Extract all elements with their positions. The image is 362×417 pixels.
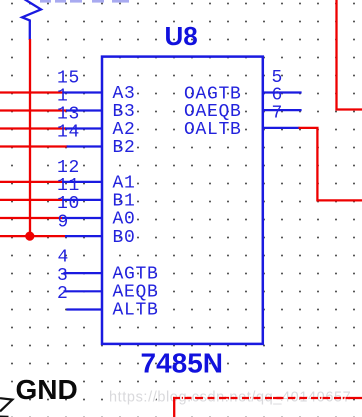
svg-text:12: 12 — [57, 158, 80, 178]
svg-text:B1: B1 — [113, 192, 136, 212]
pin stub A0 — [62, 217, 103, 219]
pin stub B0 — [65, 235, 103, 237]
svg-text:GND: GND — [16, 374, 78, 405]
wire: red bottom horizontal (under watermark) — [173, 397, 362, 399]
svg-text:B0: B0 — [113, 228, 136, 248]
svg-text:2: 2 — [57, 284, 69, 304]
wire: horizontal red to pin 13 (A2) — [0, 127, 66, 129]
pin stub ALTB — [67, 308, 104, 310]
svg-text:AGTB: AGTB — [113, 264, 159, 284]
svg-text:1: 1 — [57, 86, 69, 106]
wire: horizontal red to pin 15 (A3) — [0, 91, 64, 93]
wire: horizontal red to pin 1 (B3) — [0, 109, 67, 111]
svg-text:OALTB: OALTB — [184, 120, 242, 140]
clipped label text remnants (top edge) — [40, 0, 129, 3]
junction dot on B0 wire — [25, 232, 34, 241]
wire: red bottom horizontal dashes over watermark — [173, 397, 350, 399]
svg-text:14: 14 — [57, 123, 80, 143]
svg-text:A2: A2 — [113, 120, 136, 140]
svg-text:7485N: 7485N — [141, 348, 224, 379]
wire: horizontal red to pin 10 (A0) — [0, 217, 63, 219]
wire: red from OALTB stub right-down-right to edge — [299, 128, 362, 200]
pin stub A1 — [62, 181, 103, 183]
pin stub B3 — [66, 109, 103, 111]
svg-text:9: 9 — [58, 212, 70, 232]
pin stub B1 — [62, 199, 103, 201]
resistor R (top-left, partially clipped) — [22, 0, 41, 40]
ground flag chevron — [0, 398, 12, 411]
svg-text:B2: B2 — [113, 138, 136, 158]
wire: horizontal red to pin 11 (B1) — [0, 199, 63, 201]
svg-text:B3: B3 — [113, 102, 136, 122]
svg-text:A1: A1 — [113, 174, 136, 194]
wire: vertical red from resistor to B0 row — [29, 39, 31, 236]
wire: horizontal red to pin 14 (B2) — [0, 145, 68, 147]
svg-text:10: 10 — [57, 194, 80, 214]
svg-text:A0: A0 — [113, 210, 136, 230]
wire: horizontal red to pin 12 (A1) — [0, 181, 63, 183]
wire: red from top edge down then right (net into right edge) — [337, 0, 362, 110]
svg-text:11: 11 — [57, 176, 80, 196]
svg-text:AEQB: AEQB — [113, 283, 159, 303]
svg-text:6: 6 — [272, 86, 284, 106]
pin stub B2 — [67, 145, 103, 147]
wire: red bottom vertical drop — [173, 397, 175, 417]
svg-text:A3: A3 — [113, 84, 136, 104]
svg-text:13: 13 — [57, 105, 80, 125]
pin stub AEQB — [64, 290, 104, 292]
pin stub A2 — [65, 127, 103, 129]
pin stub AGTB — [64, 272, 104, 274]
ground flag lower tick — [0, 415, 9, 417]
pin stub OAGTB (pin 5) — [262, 91, 302, 93]
svg-text:7: 7 — [272, 104, 284, 124]
svg-text:4: 4 — [58, 248, 70, 268]
pin stub OALTB (pin 7) — [262, 127, 300, 129]
pin stub OAEQB (pin 6) — [262, 109, 302, 111]
svg-text:3: 3 — [57, 266, 69, 286]
chip U8 body outline — [102, 57, 263, 344]
pin stub A3 — [63, 91, 103, 93]
svg-text:U8: U8 — [165, 21, 198, 51]
wire: horizontal red to pin 9 (B0) — [0, 235, 66, 237]
svg-text:ALTB: ALTB — [113, 301, 159, 321]
